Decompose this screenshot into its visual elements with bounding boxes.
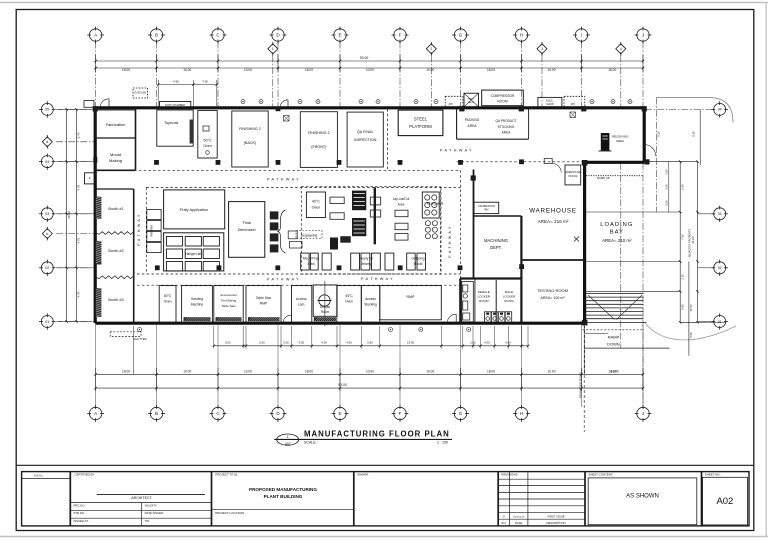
- svg-text:WAREHOUSE: WAREHOUSE: [565, 171, 581, 174]
- svg-text:10.00: 10.00: [183, 370, 191, 374]
- svg-text:PACKING: PACKING: [465, 118, 480, 122]
- svg-text:LOCKER: LOCKER: [503, 295, 516, 299]
- svg-text:3.15: 3.15: [680, 274, 684, 280]
- svg-text:5.30: 5.30: [665, 184, 669, 190]
- svg-text:1: 1: [287, 435, 289, 439]
- svg-text:E: E: [338, 411, 341, 416]
- svg-text:STOCKING: STOCKING: [498, 125, 515, 129]
- svg-text:03: 03: [718, 212, 722, 216]
- svg-text:1.30: 1.30: [665, 169, 669, 175]
- svg-text:ELEC.: ELEC.: [546, 99, 554, 103]
- svg-text:PROJECT TITLE:: PROJECT TITLE:: [215, 473, 238, 477]
- svg-text:04: 04: [45, 160, 49, 164]
- svg-text:3.50: 3.50: [299, 341, 305, 345]
- svg-text:7.50: 7.50: [680, 234, 684, 240]
- svg-text:Oven: Oven: [345, 300, 353, 304]
- svg-text:Access.: Access.: [296, 297, 308, 301]
- svg-text:AREA: AREA: [502, 131, 512, 135]
- svg-text:2.00: 2.00: [283, 341, 289, 345]
- svg-text:AREA= 216 m²: AREA= 216 m²: [538, 219, 569, 224]
- svg-text:10.00: 10.00: [548, 370, 556, 374]
- svg-text:Booth #3: Booth #3: [108, 298, 123, 302]
- svg-text:5.50: 5.50: [259, 341, 265, 345]
- svg-text:18.00: 18.00: [122, 68, 130, 72]
- svg-text:10.00: 10.00: [366, 68, 374, 72]
- svg-text:45°C: 45°C: [345, 294, 353, 298]
- svg-text:2: 2: [430, 47, 432, 51]
- svg-text:4.00: 4.00: [505, 341, 511, 345]
- svg-text:Accessories: Accessories: [220, 293, 237, 297]
- svg-text:9.30: 9.30: [657, 131, 661, 137]
- svg-text:ROOM: ROOM: [479, 299, 489, 303]
- svg-text:10.00: 10.00: [183, 68, 191, 72]
- svg-text:5.50: 5.50: [225, 341, 231, 345]
- svg-text:PLATFORM: PLATFORM: [409, 124, 432, 129]
- svg-text:Machine: Machine: [191, 303, 204, 307]
- svg-text:AREA: AREA: [616, 139, 624, 143]
- svg-text:Lam.: Lam.: [298, 303, 305, 307]
- svg-text:MACHINING: MACHINING: [484, 238, 508, 243]
- svg-text:RECEIVING: RECEIVING: [612, 135, 629, 139]
- svg-text:NO.: NO.: [501, 521, 506, 525]
- svg-text:Dimension: Dimension: [238, 228, 256, 232]
- svg-text:2.00: 2.00: [470, 341, 476, 345]
- svg-text:18.00: 18.00: [608, 68, 616, 72]
- svg-text:Fabrication: Fabrication: [106, 122, 126, 127]
- svg-text:Delivery: Delivery: [360, 262, 372, 266]
- svg-text:G: G: [459, 33, 463, 38]
- svg-text:VAULT: VAULT: [468, 101, 475, 104]
- svg-text:FEMALE: FEMALE: [478, 290, 490, 294]
- svg-text:10.50: 10.50: [689, 304, 693, 311]
- svg-text:F: F: [399, 33, 402, 38]
- svg-text:INSPECTION: INSPECTION: [354, 138, 377, 142]
- svg-text:CERTIFIED BY:: CERTIFIED BY:: [75, 473, 96, 477]
- svg-text:BAY: BAY: [610, 230, 624, 236]
- svg-text:MH.: MH.: [571, 103, 576, 106]
- svg-text:01: 01: [718, 320, 722, 324]
- svg-text:OWNER: OWNER: [357, 473, 368, 477]
- svg-text:QA FINAL: QA FINAL: [357, 130, 374, 134]
- svg-text:PRC NO.:: PRC NO.:: [74, 503, 87, 507]
- svg-text:PERIMETER FENCE: PERIMETER FENCE: [579, 372, 583, 399]
- svg-text:4.00: 4.00: [346, 341, 352, 345]
- svg-text:7.50: 7.50: [202, 80, 208, 84]
- svg-text:OFFICE: OFFICE: [568, 175, 577, 178]
- svg-text:A: A: [94, 33, 97, 38]
- svg-text:DUST/LAB: DUST/LAB: [134, 92, 146, 95]
- svg-text:b: b: [46, 232, 48, 236]
- svg-text:03: 03: [45, 212, 49, 216]
- svg-text:F: F: [89, 177, 91, 181]
- svg-text:Ready for: Ready for: [359, 257, 374, 261]
- svg-text:Topcoat: Topcoat: [164, 120, 179, 125]
- svg-text:10.00: 10.00: [426, 68, 434, 72]
- svg-text:Outgoing: Outgoing: [412, 257, 425, 261]
- svg-text:18.00: 18.00: [122, 370, 130, 374]
- svg-text:Booth #2: Booth #2: [108, 249, 123, 253]
- svg-text:18.00: 18.00: [305, 68, 313, 72]
- svg-text:MALE: MALE: [505, 290, 513, 294]
- svg-text:4.70: 4.70: [77, 238, 81, 244]
- svg-text:10.00: 10.00: [426, 370, 434, 374]
- svg-text:Oven: Oven: [312, 206, 321, 210]
- svg-text:RAMP UP: RAMP UP: [597, 176, 610, 180]
- svg-text:RMP: RMP: [260, 302, 268, 306]
- svg-text:PATHWAY: PATHWAY: [448, 224, 452, 257]
- svg-text:FINISHING 2: FINISHING 2: [239, 127, 261, 131]
- svg-text:ROOM: ROOM: [497, 100, 508, 104]
- svg-text:MH.: MH.: [449, 103, 454, 106]
- svg-text:MANUFACTURING FLOOR PLAN: MANUFACTURING FLOOR PLAN: [304, 429, 450, 438]
- svg-text:PATHWAY: PATHWAY: [267, 278, 301, 282]
- svg-text:Booth #1: Booth #1: [108, 207, 123, 211]
- svg-text:04: 04: [718, 108, 722, 112]
- svg-text:CALIBRATION: CALIBRATION: [478, 204, 495, 208]
- svg-text:6.50: 6.50: [680, 184, 684, 190]
- svg-text:Mould: Mould: [110, 152, 121, 157]
- svg-text:5.90: 5.90: [680, 304, 684, 310]
- svg-text:28.00: 28.00: [67, 211, 71, 219]
- svg-text:18.00: 18.00: [305, 370, 313, 374]
- svg-text:4.70: 4.70: [77, 291, 81, 297]
- svg-text:FIRST ISSUE: FIRST ISSUE: [547, 514, 564, 518]
- svg-text:Access: Access: [365, 297, 376, 301]
- svg-text:A02: A02: [716, 496, 733, 507]
- svg-text:4.50: 4.50: [173, 80, 179, 84]
- svg-text:LOADING: LOADING: [600, 222, 633, 228]
- svg-text:J: J: [642, 33, 644, 38]
- svg-text:1: 1: [272, 47, 274, 51]
- svg-text:AS SHOWN: AS SHOWN: [626, 494, 659, 500]
- svg-text:PATHWAY: PATHWAY: [137, 212, 141, 245]
- svg-text:Final: Final: [243, 221, 251, 225]
- svg-text:93.00: 93.00: [338, 383, 347, 387]
- svg-text:H: H: [520, 411, 523, 416]
- svg-text:8.70: 8.70: [77, 132, 81, 138]
- svg-text:05: 05: [45, 108, 49, 112]
- svg-text:DUST CHAMBER: DUST CHAMBER: [165, 104, 185, 107]
- svg-text:02: 02: [45, 266, 49, 270]
- svg-text:4: 4: [620, 47, 622, 51]
- svg-text:5.80: 5.80: [367, 341, 373, 345]
- svg-text:60°C: 60°C: [164, 294, 172, 298]
- svg-text:E: E: [338, 33, 341, 38]
- svg-text:02: 02: [718, 266, 722, 270]
- svg-text:ADJACENT PROPERTY: ADJACENT PROPERTY: [688, 228, 692, 257]
- svg-text:13.00: 13.00: [244, 370, 252, 374]
- svg-text:Table Saw: Table Saw: [256, 296, 272, 300]
- svg-text:SHEET CONTENT:: SHEET CONTENT:: [588, 473, 613, 477]
- svg-text:Sanding: Sanding: [191, 297, 203, 301]
- svg-text:3: 3: [541, 47, 543, 51]
- svg-text:2019-06-30: 2019-06-30: [513, 516, 525, 518]
- svg-text:REVISIONS:: REVISIONS:: [502, 473, 519, 477]
- svg-text:RM: RM: [484, 208, 488, 212]
- svg-text:DEPT.: DEPT.: [490, 245, 502, 250]
- svg-text:A02: A02: [285, 442, 291, 446]
- svg-text:1 : 150: 1 : 150: [437, 441, 448, 445]
- svg-text:B: B: [155, 411, 158, 416]
- svg-text:VALIDITY:: VALIDITY:: [145, 503, 158, 507]
- svg-text:9.30: 9.30: [692, 131, 696, 137]
- svg-text:A: A: [94, 411, 97, 416]
- svg-text:40°C: 40°C: [312, 200, 320, 204]
- svg-text:B: B: [155, 33, 158, 38]
- svg-text:SHUTTER: SHUTTER: [133, 337, 146, 341]
- svg-text:4.70: 4.70: [77, 184, 81, 190]
- svg-text:PROJECT LOCATION :: PROJECT LOCATION :: [215, 511, 246, 515]
- svg-text:AREA= 100 m²: AREA= 100 m²: [540, 296, 565, 300]
- svg-text:Making: Making: [109, 158, 122, 163]
- svg-text:TIN:: TIN:: [145, 519, 151, 523]
- svg-text:COMPRESSOR: COMPRESSOR: [491, 94, 515, 98]
- svg-text:Putty Application: Putty Application: [180, 208, 208, 212]
- svg-text:Stocking: Stocking: [364, 303, 377, 307]
- svg-text:SCALE :: SCALE :: [304, 441, 318, 445]
- svg-text:RAMP: RAMP: [608, 335, 620, 340]
- svg-text:PLANT BUILDING: PLANT BUILDING: [264, 494, 303, 499]
- svg-text:PRE-RM: PRE-RM: [150, 225, 154, 237]
- svg-text:RMP: RMP: [407, 295, 416, 299]
- svg-text:FINISHING 2: FINISHING 2: [308, 131, 330, 135]
- svg-text:Table Saw: Table Saw: [221, 304, 236, 308]
- svg-text:G: G: [459, 411, 463, 416]
- svg-text:DATE: DATE: [515, 521, 522, 525]
- svg-text:50°C: 50°C: [203, 139, 211, 143]
- svg-text:PAINT: PAINT: [468, 98, 475, 101]
- svg-text:Mould Prep: Mould Prep: [303, 257, 320, 261]
- svg-text:10.00: 10.00: [548, 68, 556, 72]
- svg-text:Oven: Oven: [203, 144, 212, 148]
- svg-text:J: J: [642, 411, 644, 416]
- svg-text:F: F: [399, 411, 402, 416]
- svg-text:13.00: 13.00: [244, 68, 252, 72]
- svg-text:5.50: 5.50: [689, 332, 693, 338]
- svg-text:AREA= 210 m²: AREA= 210 m²: [602, 238, 632, 243]
- svg-text:PROPOSED MANUFACTURING: PROPOSED MANUFACTURING: [249, 487, 317, 492]
- svg-text:AREA: AREA: [468, 124, 478, 128]
- svg-text:DOWN: DOWN: [607, 342, 620, 347]
- svg-text:4.00: 4.00: [484, 341, 490, 345]
- svg-text:SHEET NO.:: SHEET NO.:: [705, 473, 722, 477]
- svg-text:WAREHOUSE: WAREHOUSE: [529, 208, 577, 215]
- svg-text:Trim/Siding: Trim/Siding: [221, 299, 237, 303]
- svg-text:STEEL: STEEL: [414, 117, 428, 122]
- svg-text:10.00: 10.00: [366, 370, 374, 374]
- svg-text:DESCRIPTION: DESCRIPTION: [546, 521, 565, 525]
- svg-text:DATE ISSUED:: DATE ISSUED:: [145, 511, 164, 515]
- svg-text:Lay-out/Cut: Lay-out/Cut: [393, 197, 410, 201]
- svg-text:LOCKER: LOCKER: [478, 295, 491, 299]
- svg-text:Area: Area: [398, 203, 405, 207]
- svg-text:Oven: Oven: [164, 300, 172, 304]
- svg-text:PATHWAY: PATHWAY: [440, 149, 474, 153]
- svg-text:13.00: 13.00: [407, 341, 414, 345]
- svg-text:6.50: 6.50: [665, 200, 669, 206]
- svg-text:QA PRODUCT: QA PRODUCT: [495, 119, 516, 123]
- svg-text:SHOP: SHOP: [546, 102, 554, 106]
- svg-text:13.00: 13.00: [611, 370, 619, 374]
- svg-text:(BACK): (BACK): [244, 141, 257, 145]
- svg-text:a: a: [46, 140, 48, 144]
- svg-text:I: I: [581, 33, 582, 38]
- svg-text:TESTING ROOM: TESTING ROOM: [537, 288, 568, 293]
- svg-text:PTR NO. :: PTR NO. :: [74, 511, 87, 515]
- svg-text:H: H: [520, 33, 523, 38]
- svg-text:ARCHITECT: ARCHITECT: [131, 496, 152, 500]
- svg-text:ISSUED AT :: ISSUED AT :: [74, 519, 90, 523]
- svg-text:S E A L: S E A L: [34, 473, 44, 477]
- svg-text:ROOM: ROOM: [504, 299, 514, 303]
- svg-text:Mould: Mould: [414, 262, 423, 266]
- svg-text:93.00: 93.00: [360, 56, 369, 60]
- svg-text:18.00: 18.00: [487, 68, 495, 72]
- svg-text:PATHWAY: PATHWAY: [267, 178, 301, 182]
- svg-text:PATHWAY: PATHWAY: [361, 277, 395, 281]
- svg-text:Hanger rail: Hanger rail: [185, 252, 201, 256]
- svg-text:4.30: 4.30: [321, 341, 327, 345]
- svg-text:Degreasing: Degreasing: [301, 233, 318, 237]
- svg-text:Area: Area: [308, 262, 315, 266]
- svg-text:01: 01: [45, 320, 49, 324]
- svg-text:18.00: 18.00: [487, 370, 495, 374]
- svg-text:(FRONT): (FRONT): [311, 145, 326, 149]
